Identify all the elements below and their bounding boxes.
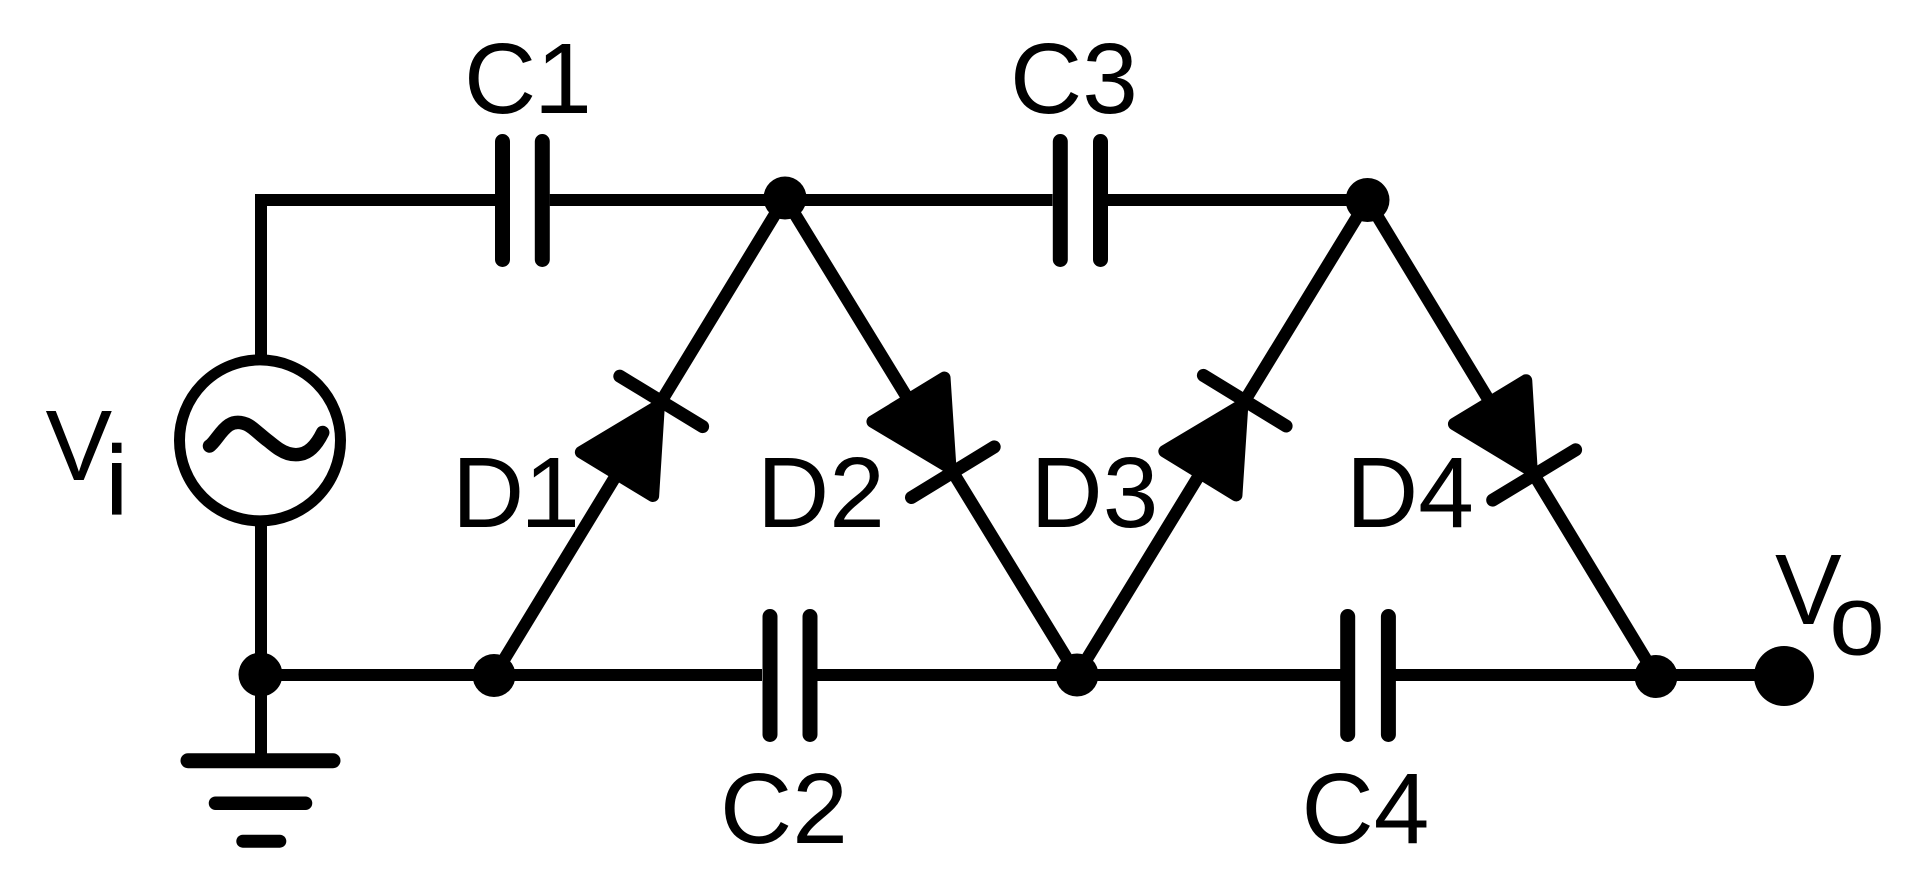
svg-text:D2: D2 bbox=[757, 437, 885, 549]
wire top-left corner from Vi to C1 bbox=[261, 200, 495, 440]
label Vi bbox=[112, 443, 122, 453]
diode D4 bbox=[1368, 200, 1657, 676]
node D2/D3 junction (bottom rail) bbox=[1056, 654, 1099, 697]
ground symbol bbox=[188, 761, 333, 842]
svg-text:C3: C3 bbox=[1010, 23, 1138, 135]
node at Vi bottom bbox=[239, 653, 283, 697]
svg-text:D1: D1 bbox=[452, 437, 580, 549]
wire top rail C3 to node B bbox=[1108, 194, 1368, 206]
serif foot of digit 1 in C1 bbox=[542, 106, 585, 114]
node D4 cathode (bottom rail) bbox=[1635, 655, 1678, 698]
capacitor C3 plates bbox=[1060, 142, 1100, 260]
node top rail C3 right bbox=[1346, 178, 1390, 222]
serif foot of digit 1 in D1 bbox=[528, 520, 571, 528]
svg-text:C2: C2 bbox=[720, 753, 848, 865]
wire bottom rail Vi node to C2 bbox=[261, 669, 763, 681]
diode D3 bbox=[1077, 200, 1368, 675]
wire top rail C1 to C3 bbox=[550, 194, 1053, 206]
sine wave inside source bbox=[210, 422, 323, 454]
diode D1 bbox=[494, 198, 785, 676]
svg-text:C4: C4 bbox=[1302, 753, 1430, 865]
capacitor C4 plates bbox=[1348, 617, 1389, 735]
svg-text:V: V bbox=[46, 390, 113, 502]
wire bottom rail C2 to C4 bbox=[818, 669, 1342, 681]
output terminal Vo dot bbox=[1754, 646, 1814, 706]
svg-text:D3: D3 bbox=[1031, 437, 1159, 549]
svg-text:C1: C1 bbox=[464, 23, 592, 135]
wire bottom rail C4 to Vo bbox=[1395, 669, 1784, 681]
capacitor C1 plates bbox=[503, 142, 543, 260]
diode D2 bbox=[785, 198, 1077, 675]
svg-text:D4: D4 bbox=[1346, 437, 1474, 549]
node D1 anode (bottom rail) bbox=[473, 654, 516, 697]
AC source Vi circle bbox=[180, 360, 341, 521]
wire Vi bottom to ground bbox=[255, 440, 267, 760]
node top rail C1/C3 junction bbox=[764, 177, 807, 220]
capacitor C2 plates bbox=[770, 617, 810, 735]
